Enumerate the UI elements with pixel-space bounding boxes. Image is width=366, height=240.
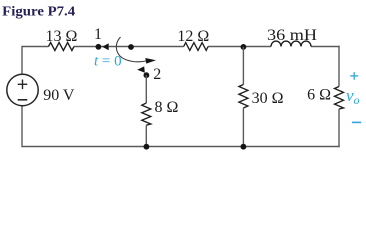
svg-text:30 Ω: 30 Ω	[252, 90, 284, 107]
switch motion arc arrowhead	[145, 58, 156, 64]
svg-text:36 mH: 36 mH	[267, 27, 318, 44]
switch pivot dot	[128, 44, 134, 50]
resistor 13Ω (top left)	[49, 43, 75, 51]
node dot at top of 30Ω branch	[241, 44, 247, 50]
resistor 12Ω	[184, 43, 208, 51]
inductor 36 mH	[271, 41, 311, 46]
node 1 dot	[96, 44, 102, 50]
wire: top rail middle segment	[74, 46, 184, 48]
wire: 30Ω branch lower	[242, 108, 244, 147]
wire: top rail far right segment	[311, 46, 340, 48]
svg-text:t = 0: t = 0	[94, 54, 122, 70]
resistor 8Ω	[142, 103, 151, 125]
svg-text:vo: vo	[346, 86, 360, 107]
wire: 8Ω to bottom rail	[145, 125, 147, 146]
wire: left rail upper	[21, 46, 23, 75]
wire: left rail lower	[21, 106, 23, 148]
voltage source V 90V	[7, 74, 38, 105]
svg-text:13 Ω: 13 Ω	[46, 28, 78, 45]
label − (polarity of vo)	[352, 121, 361, 123]
switch contact arrowhead at position 1	[102, 43, 109, 50]
wire: 30Ω branch upper	[242, 47, 244, 85]
svg-text:90 V: 90 V	[43, 87, 75, 104]
switch contact arrowhead at position 2	[137, 66, 145, 72]
switch motion arc	[116, 37, 146, 62]
wire: right rail lower	[338, 109, 340, 147]
resistor 30Ω	[239, 85, 248, 109]
wire: bottom rail	[22, 146, 340, 148]
resistor 6Ω	[335, 87, 344, 110]
svg-text:6 Ω: 6 Ω	[307, 87, 331, 104]
junction dot bottom of 8Ω branch	[144, 144, 150, 150]
label + (polarity of vo)	[350, 72, 358, 80]
node 2 dot	[144, 72, 150, 78]
wire: top rail left segment	[22, 46, 49, 48]
svg-text:1: 1	[94, 26, 102, 43]
svg-text:2: 2	[153, 66, 161, 83]
svg-text:Figure P7.4: Figure P7.4	[2, 5, 75, 20]
junction dot bottom of 30Ω branch	[241, 144, 247, 150]
svg-text:8 Ω: 8 Ω	[155, 99, 179, 116]
wire: top rail right segment	[208, 46, 271, 48]
svg-text:12 Ω: 12 Ω	[177, 28, 209, 45]
wire: right rail upper	[338, 46, 340, 87]
wire: node 2 down to 8Ω	[145, 75, 147, 103]
